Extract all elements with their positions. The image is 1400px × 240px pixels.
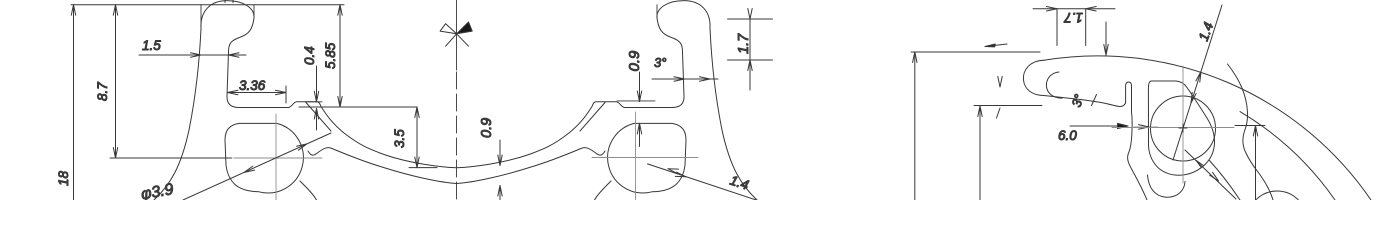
small leader arrow at extension line [985, 44, 1007, 47]
svg-text:1.4: 1.4 [1196, 20, 1217, 43]
second web S-wall [1228, 64, 1274, 200]
dimension 18 line [71, 5, 75, 200]
right outer wall and flare arc [710, 29, 757, 201]
dimension 8.7 line [113, 5, 117, 158]
dimension 1.5 line [139, 53, 246, 57]
dimension 3.36 line [228, 86, 287, 103]
dimension 5.85 line [338, 5, 342, 107]
left web diagonal [306, 103, 331, 132]
dimension 3 degree left line [652, 77, 718, 81]
partial second spoke circle [1256, 191, 1299, 200]
right cavity outline [1148, 81, 1214, 175]
rim inner wall arc [1240, 112, 1335, 200]
left bed flat [239, 107, 288, 109]
right cavity exit edge [1209, 160, 1240, 200]
right drawing vertical dimension [1235, 126, 1265, 201]
svg-text:0.4: 0.4 [302, 46, 317, 65]
left cavity crosshair [234, 114, 322, 200]
dimension 3.5 line [409, 107, 437, 168]
svg-text:3°: 3° [654, 55, 666, 70]
svg-text:1.7: 1.7 [1064, 10, 1083, 25]
svg-text:φ3.9: φ3.9 [140, 181, 175, 200]
right drawing top extension line [911, 51, 1040, 53]
left hook inner curl [227, 18, 254, 108]
svg-text:3.36: 3.36 [239, 78, 266, 93]
svg-text:6.0: 6.0 [1058, 128, 1077, 143]
bed surface curve U1 [321, 107, 592, 168]
oblique tick [997, 108, 1001, 118]
right web diagonal [580, 103, 605, 132]
dimension 6.0 line [1070, 123, 1158, 129]
cavity center mark [1179, 124, 1187, 132]
cropped top dimension stubs [224, 0, 226, 3]
right hook inner lip curl [1046, 72, 1062, 98]
svg-text:0.9: 0.9 [626, 50, 643, 72]
right web lower edge [595, 181, 612, 200]
right dome extension lines [656, 5, 658, 16]
right bed flat [625, 107, 672, 109]
svg-text:1.7: 1.7 [736, 33, 752, 54]
second height dimension line [978, 106, 982, 200]
right hook mouth edge [1044, 96, 1126, 107]
web fin [1126, 82, 1132, 112]
dimension 0.4 line and arrows [314, 66, 318, 130]
left dome extension lines [200, 5, 202, 30]
down arrow to dome top [1104, 22, 1108, 55]
lower pocket bottom [1148, 175, 1186, 197]
second extension line [974, 105, 1042, 107]
dimension 1.7 rotated 180 [1033, 7, 1115, 46]
lower wall thickness leader [1185, 150, 1236, 199]
svg-text:1.5: 1.5 [142, 38, 161, 53]
right cavity circle [1151, 96, 1216, 161]
left hook outer wall and flare arc [154, 29, 201, 201]
diameter 3.9 leader [183, 133, 331, 200]
dimension 0.9 center line [498, 140, 502, 200]
svg-text:18: 18 [56, 170, 71, 186]
channel bottom curve U2 [308, 148, 605, 184]
dimension 1.4 left leader [648, 164, 771, 205]
right inner wall and curl [657, 18, 684, 108]
left cavity outline [225, 123, 303, 193]
left web lower edge [300, 181, 317, 200]
svg-text:3.5: 3.5 [392, 129, 407, 148]
right cavity crosshair [1112, 66, 1234, 183]
bump-top extension line [305, 101, 322, 103]
left hook dome [201, 1, 254, 29]
symmetry bowtie symbol [440, 22, 472, 46]
svg-text:0.9: 0.9 [479, 118, 495, 138]
top dimension reference line [71, 4, 344, 6]
extension line to spoke center [110, 157, 232, 159]
oblique tick near 3 degree [1092, 95, 1097, 106]
rim outer arc [1044, 56, 1371, 200]
dimension 0.9 right line [637, 72, 641, 147]
right cavity crosshair [592, 112, 698, 200]
right drawing height dimension line [913, 52, 917, 200]
dimension 1.7 right of left profile [728, 9, 773, 91]
svg-text:3°: 3° [1069, 92, 1087, 108]
center line solid top [456, 0, 458, 70]
floating down arrow [998, 77, 1002, 88]
right cavity outline [608, 123, 686, 193]
right hook dome [657, 1, 710, 29]
center line dashed [456, 72, 458, 200]
right hook cap [1023, 60, 1044, 95]
svg-text:8.7: 8.7 [95, 82, 110, 101]
left bump [288, 102, 321, 108]
right bump [592, 102, 625, 108]
right web S-wall [1128, 112, 1147, 200]
right bump-top extension line [617, 100, 655, 102]
dimension 1.4 right leader [1173, 5, 1222, 160]
ledge extension line [299, 106, 417, 108]
svg-text:5.85: 5.85 [323, 42, 338, 69]
